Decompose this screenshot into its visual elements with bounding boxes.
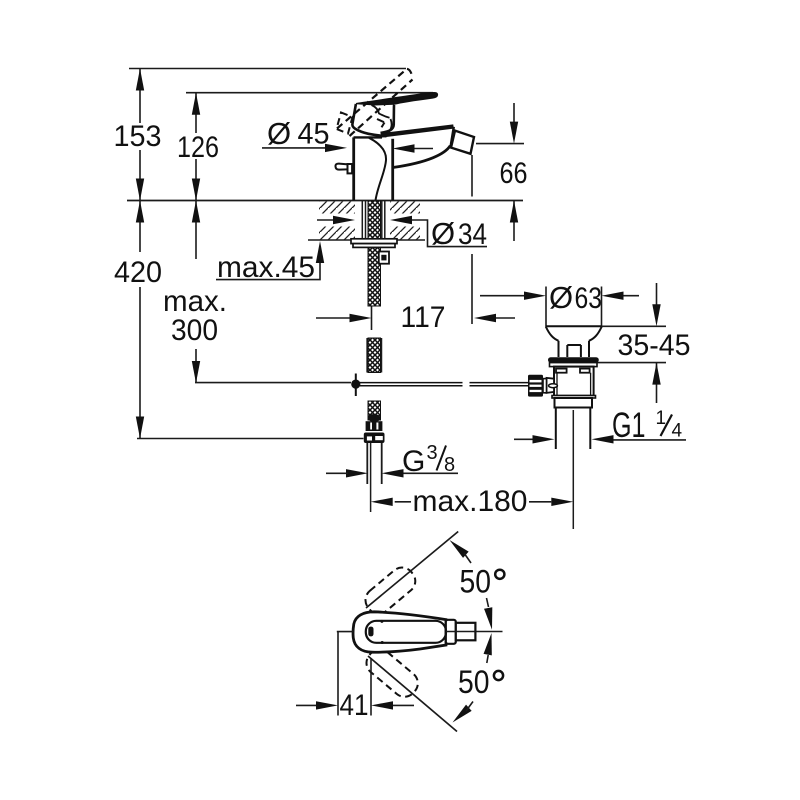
svg-text:63: 63 — [575, 282, 603, 315]
spout tube — [456, 623, 476, 641]
svg-text:126: 126 — [177, 131, 219, 164]
svg-text:Ø: Ø — [431, 216, 455, 251]
svg-text:max.180: max.180 — [413, 485, 528, 518]
50° upper annotation — [447, 537, 469, 558]
drain pipe — [556, 408, 591, 450]
braided hose segment 1 — [368, 201, 381, 306]
counter underside line — [308, 239, 425, 241]
body internal curves — [369, 105, 392, 201]
35-45 dimension — [597, 283, 666, 403]
svg-text:50: 50 — [460, 564, 492, 600]
solid handle outline — [353, 612, 446, 652]
41 dimension — [296, 632, 414, 716]
logo mark — [368, 627, 373, 637]
second reference line (153/126 top) — [186, 92, 433, 94]
handle base / cartridge housing outline — [352, 104, 386, 136]
svg-text:117: 117 — [401, 301, 446, 334]
arrows for 153/420 dims — [136, 69, 144, 439]
washer plates — [351, 239, 397, 244]
G1 1/4 dimension — [514, 438, 686, 441]
svg-text:1: 1 — [656, 408, 667, 429]
rod clip — [379, 252, 389, 264]
hose ferrule — [366, 421, 383, 431]
vertical dimension line x=196 (126 and max.300) — [195, 93, 351, 383]
vertical dimension line x=140 (153 and 420) — [137, 69, 364, 439]
svg-text:45: 45 — [298, 118, 330, 151]
left cone + oval — [547, 378, 555, 393]
collar — [446, 620, 456, 644]
knurled nut — [528, 375, 543, 397]
svg-text:Ø: Ø — [549, 280, 573, 315]
spout — [381, 127, 454, 168]
drain body — [554, 367, 594, 396]
svg-text:G1: G1 — [612, 406, 646, 445]
tailpiece — [555, 398, 593, 408]
drain bell flange — [546, 326, 602, 357]
svg-text:66: 66 — [500, 157, 528, 190]
inner lever outline — [366, 621, 446, 643]
lever blade (filled sliver) — [356, 93, 438, 105]
hose tails — [367, 443, 381, 484]
max.180 dimension — [395, 501, 552, 503]
dashed raised handle — [337, 69, 413, 136]
Ø34 dimension — [317, 220, 487, 247]
svg-text:8: 8 — [444, 454, 455, 476]
50° lower annotation — [484, 632, 496, 655]
Ø63 dimension — [480, 287, 639, 329]
svg-text:50: 50 — [458, 664, 490, 700]
shank edge lines — [362, 201, 385, 239]
G3/8 label + arrows — [346, 469, 404, 477]
svg-text:420: 420 — [114, 256, 162, 289]
svg-text:34: 34 — [458, 218, 487, 251]
svg-text:3: 3 — [427, 442, 438, 464]
svg-text:35-45: 35-45 — [618, 329, 691, 362]
50° diagonal lines — [366, 532, 458, 609]
aerator tip — [451, 131, 474, 154]
svg-text:Ø: Ø — [267, 116, 291, 151]
svg-text:41: 41 — [340, 689, 369, 722]
117 dimension — [316, 155, 515, 330]
body sides — [354, 137, 393, 200]
dashed rotated handle (up position) — [361, 563, 423, 702]
mounting surface line — [127, 200, 523, 202]
svg-text:4: 4 — [672, 421, 683, 442]
pivot dot + vertical rod — [355, 374, 357, 397]
centerline — [337, 631, 354, 633]
braided hose segment 3 — [368, 401, 381, 420]
pop-up rod knob (left of body) — [335, 164, 352, 174]
svg-text:153: 153 — [114, 120, 162, 153]
body lower flange — [552, 396, 596, 399]
gasket — [548, 357, 599, 362]
counter cross-section hatching — [319, 202, 355, 240]
horizontal pop-up rod — [360, 383, 529, 386]
braided hose segment 2 — [368, 338, 381, 373]
top reference line (max handle height) — [129, 68, 406, 70]
svg-text:300: 300 — [171, 314, 218, 347]
svg-text:G: G — [402, 445, 425, 478]
G3/8 nut — [364, 433, 385, 444]
lever front face — [381, 105, 395, 133]
